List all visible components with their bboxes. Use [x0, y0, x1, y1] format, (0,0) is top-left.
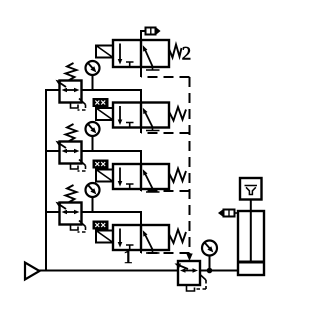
valve row2 body	[113, 103, 169, 128]
pressure reducing valve row2 adjustment arrow	[56, 80, 67, 87]
pressure reducing valve row3 flow arrow	[62, 149, 80, 153]
valve row4 (labelled 1) left-position blocked port	[126, 245, 134, 250]
valve row4 (labelled 1) exhaust port	[146, 250, 160, 253]
label 2	[183, 47, 191, 60]
valve row3 body	[113, 164, 169, 189]
solenoid of valve row3	[96, 170, 113, 182]
pressure reducing valve row4 flow arrow	[62, 210, 80, 214]
solenoid terminal box of valve row3	[93, 160, 108, 168]
wire: pilot stub valve V2	[140, 67, 142, 77]
valve row4 (labelled 1) body	[113, 225, 169, 250]
main regulator adjustment arrow	[175, 264, 189, 270]
wire: supply line from regulator to cylinder	[200, 270, 238, 272]
pressure gauge row4	[86, 183, 100, 197]
pressure reducing valve row2 drain pilot line	[78, 99, 86, 111]
wire: cylinder rod-side vent pipe	[235, 212, 239, 214]
valve row2 left-position blocked port	[126, 123, 134, 128]
wire: bus stub to reducing valve row 4	[46, 211, 60, 213]
wire: valve V2 exhaust pipe to muffler	[141, 31, 146, 40]
pressure reducing valve row3 body	[60, 142, 82, 164]
wire: pilot stub valve row2	[140, 128, 142, 134]
pressure reducing valve row3 drain pilot line	[78, 160, 86, 172]
wire: gauge stem row2	[92, 75, 94, 90]
main regulator drain pilot line	[196, 275, 206, 290]
wire: rod to electrode holder	[250, 200, 252, 212]
solenoid of valve V2 (top, labelled 2)	[96, 46, 113, 58]
pilot line valve row4 to trunk (dashed)	[141, 252, 190, 254]
electrode symbol	[245, 186, 258, 195]
valve V2 (top, labelled 2) exhaust port	[146, 67, 160, 70]
return spring of valve row3	[169, 169, 186, 183]
valve row2 exhaust port	[146, 128, 160, 131]
valve row3 right-position flow arrow	[143, 169, 153, 189]
pressure reducing valve row2 spring	[66, 63, 77, 81]
pilot line valve row2 to trunk (dashed)	[141, 132, 190, 134]
valve row3 left-position flow arrow	[118, 168, 123, 187]
electrode holder box	[240, 178, 262, 200]
valve V2 (top, labelled 2) left-position flow arrow	[118, 44, 123, 65]
cylinder barrel	[238, 211, 264, 275]
pressure reducing valve row3 spring	[66, 124, 77, 142]
valve row2 left-position flow arrow	[118, 106, 123, 125]
muffler on valve V2 exhaust	[146, 28, 156, 35]
wire: bus stub to reducing valve row 3	[46, 150, 60, 152]
valve V2 (top, labelled 2) right-position flow arrow	[143, 45, 153, 67]
main regulator flow arrow	[180, 268, 198, 272]
pressure gauge row2	[86, 61, 100, 75]
wire: left supply bus riser	[46, 90, 60, 271]
valve V2 (top, labelled 2) body	[113, 40, 169, 67]
pressure reducing valve row4 body	[60, 203, 82, 225]
pilot trunk line (dashed) down to main regulator	[189, 77, 191, 254]
wire: reducing valve row4 output to valve row4 inlet	[82, 212, 142, 225]
cylinder piston rod	[250, 211, 252, 261]
valve row4 (labelled 1) left-position flow arrow	[118, 229, 123, 248]
label 1	[125, 251, 132, 264]
return spring of valve row4 (labelled 1)	[169, 230, 186, 244]
wire: main supply line from source to regulator	[39, 270, 178, 272]
pressure reducing valve row4 vent	[71, 225, 79, 231]
pilot-operated main pressure regulator body	[178, 261, 200, 285]
pressure gauge row3	[86, 122, 100, 136]
wire: bottom gauge stem	[209, 256, 211, 271]
valve V2 (top, labelled 2) left-position blocked port	[126, 62, 134, 67]
pilot line valve row3 to trunk (dashed)	[141, 190, 190, 192]
pilot arrow into main regulator	[186, 254, 192, 262]
pressure reducing valve row3 adjustment arrow	[56, 141, 67, 148]
wire: gauge stem row4	[92, 197, 94, 212]
solenoid of valve row2	[96, 108, 113, 120]
valve row4 (labelled 1) right-position flow arrow	[143, 230, 153, 250]
pressure reducing valve row3 vent	[71, 164, 79, 170]
muffler on cylinder rod side	[224, 210, 235, 217]
wire: pilot stub valve row4	[140, 250, 142, 253]
pressure reducing valve row2 body	[60, 81, 82, 103]
solenoid terminal box of valve row4 (labelled 1)	[93, 221, 108, 229]
solenoid terminal box of valve row2	[93, 99, 108, 107]
valve row3 left-position blocked port	[126, 184, 134, 189]
main regulator vent	[187, 285, 195, 291]
wire: gauge stem row3	[92, 136, 94, 151]
return spring of valve row2	[169, 107, 186, 121]
wire: reducing valve row3 output to valve row3 inlet	[82, 151, 142, 164]
wire: reducing valve row2 output to valve row2 inlet	[82, 90, 142, 103]
cylinder piston	[238, 261, 264, 264]
wire: pilot stub valve row3	[140, 189, 142, 191]
junction node	[207, 268, 213, 274]
pneumatic pressure source	[25, 263, 40, 280]
return spring of valve V2 (top, labelled 2)	[169, 45, 182, 58]
valve row3 exhaust port	[146, 189, 160, 192]
pilot line valve V2 to trunk (dashed)	[141, 76, 190, 78]
solenoid of valve row4 (labelled 1)	[96, 231, 113, 243]
pressure reducing valve row2 vent	[71, 103, 79, 109]
pressure reducing valve row4 spring	[66, 185, 77, 203]
pressure reducing valve row4 drain pilot line	[78, 221, 86, 233]
pressure reducing valve row2 flow arrow	[62, 88, 80, 92]
valve row2 right-position flow arrow	[143, 108, 153, 128]
pressure reducing valve row4 adjustment arrow	[56, 202, 67, 209]
pressure gauge outlet	[202, 241, 217, 256]
